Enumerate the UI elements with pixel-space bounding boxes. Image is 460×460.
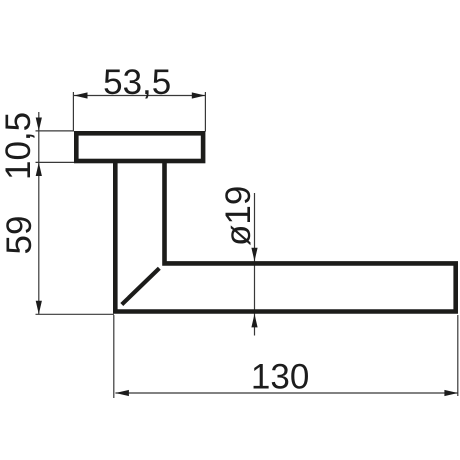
dimension line 130 [115, 392, 458, 394]
svg-text:53,5: 53,5 [103, 63, 171, 102]
svg-text:ø19: ø19 [219, 186, 258, 246]
extension line 130 right [457, 315, 459, 396]
arrow 130 left [115, 390, 128, 396]
dimension line ø19 [254, 193, 256, 336]
svg-text:59: 59 [0, 216, 39, 255]
arrow 53,5 right [192, 92, 206, 98]
extension line 10,5 top [36, 130, 75, 132]
svg-text:130: 130 [251, 358, 309, 397]
arrow ø19 up [251, 314, 257, 328]
arrow 130 right [444, 390, 458, 396]
rose plate (top rectangle) [76, 133, 203, 161]
extension line 53,5 left [72, 92, 74, 132]
dimension line 53,5 [74, 95, 205, 97]
dimension line 10,5 and 59 [38, 112, 40, 314]
extension line 53,5 right [204, 92, 206, 132]
extension line 130 left [113, 315, 115, 398]
arrow 10,5 down [36, 118, 42, 132]
arrow 59 down [36, 301, 42, 315]
arrow 10,5 / 59 up [36, 163, 42, 177]
arrow ø19 down [251, 248, 257, 262]
arrow 53,5 left [74, 92, 88, 98]
svg-text:10,5: 10,5 [0, 112, 38, 180]
extension line 59 bottom [36, 313, 115, 315]
handle outline (neck and lever) [115, 162, 455, 312]
extension line 10,5 / 59 shared [36, 161, 75, 163]
miter line at handle bend [122, 268, 160, 304]
